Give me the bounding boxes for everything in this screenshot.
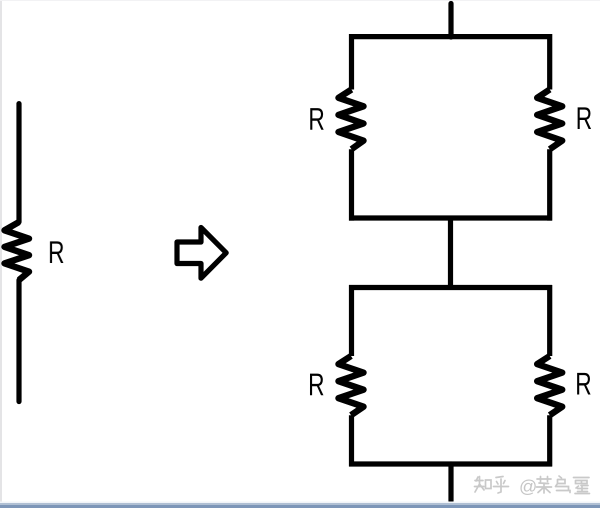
left page border xyxy=(0,0,2,502)
wire: bottom edge of upper loop xyxy=(349,215,552,220)
svg-text:R: R xyxy=(308,101,324,137)
wire: lower-right branch lower segment xyxy=(547,415,552,466)
resistor R (single, left) xyxy=(5,222,30,280)
watermark: 知乎 @菜鸟霍 xyxy=(475,476,590,497)
wire: upper-right branch lower segment xyxy=(547,149,552,220)
glyph 菜 xyxy=(537,477,552,494)
wire: bottom lead of single resistor xyxy=(16,280,21,402)
svg-text:R: R xyxy=(48,234,64,270)
resistor R (lower-right) xyxy=(537,356,562,415)
resistor R (upper-right) xyxy=(537,90,562,150)
wire: lower-left branch upper segment xyxy=(349,285,354,356)
svg-text:R: R xyxy=(576,100,592,136)
wire: upper-right branch upper segment xyxy=(547,34,552,90)
glyph 鸟 xyxy=(556,476,571,493)
wire: top edge of upper loop xyxy=(349,34,552,39)
top page border xyxy=(0,0,600,1)
wire: top feed into upper parallel pair xyxy=(448,4,453,38)
wire: bottom lead out of lower pair xyxy=(448,464,453,501)
svg-text:R: R xyxy=(308,366,324,402)
wire: top edge of lower loop xyxy=(349,285,552,290)
svg-text:@: @ xyxy=(519,477,537,497)
resistor R (lower-left) xyxy=(339,356,364,415)
glyph 霍 xyxy=(574,478,590,494)
arrow (transform symbol) xyxy=(177,228,226,279)
wire: upper-left branch upper segment xyxy=(349,34,354,90)
bottom page divider bar xyxy=(0,502,600,504)
wire: bottom edge of lower loop xyxy=(349,461,552,466)
resistor R (upper-left) xyxy=(339,90,364,150)
glyph 知 xyxy=(475,477,492,493)
wire: top lead of single resistor xyxy=(16,104,21,222)
wire: lower-right branch upper segment xyxy=(547,285,552,356)
glyph 乎 xyxy=(494,477,509,494)
svg-text:R: R xyxy=(575,366,591,402)
wire: lower-left branch lower segment xyxy=(349,415,354,466)
wire: upper-left branch lower segment xyxy=(349,149,354,220)
wire: link between upper and lower pairs xyxy=(448,218,453,288)
